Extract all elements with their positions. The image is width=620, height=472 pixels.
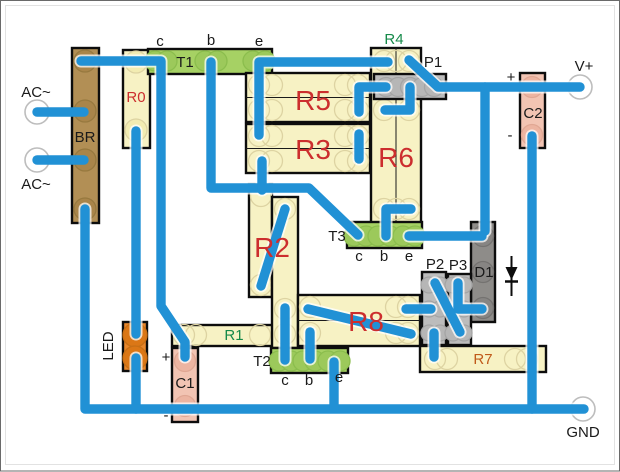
wire AC1 to BR bbox=[37, 107, 84, 116]
potentiometer P2 bbox=[421, 272, 448, 345]
svg-text:P2: P2 bbox=[426, 256, 444, 273]
bridge rectifier BR bbox=[72, 48, 99, 223]
svg-text:+: + bbox=[507, 69, 516, 86]
wire R4 top right to V+ bbox=[409, 60, 580, 87]
wire R0 bottom to LED top bbox=[131, 131, 140, 334]
resistor R8 bbox=[298, 295, 420, 346]
svg-text:T1: T1 bbox=[176, 54, 194, 71]
svg-text:c: c bbox=[281, 372, 289, 389]
wire P2 diagonal bbox=[435, 283, 460, 332]
potentiometer P1 bbox=[374, 74, 446, 99]
svg-text:c: c bbox=[355, 248, 363, 265]
wire R2 diagonal jumper bbox=[261, 209, 285, 286]
capacitor C2 bbox=[520, 73, 545, 148]
svg-text:e: e bbox=[405, 248, 413, 265]
svg-text:R1: R1 bbox=[224, 327, 243, 344]
svg-text:R3: R3 bbox=[295, 134, 331, 165]
svg-text:AC~: AC~ bbox=[21, 84, 51, 101]
wire T2 emitter to ground bus bbox=[329, 362, 338, 408]
svg-text:R0: R0 bbox=[126, 89, 145, 106]
svg-text:C1: C1 bbox=[175, 375, 194, 392]
potentiometer P3 bbox=[445, 274, 472, 345]
svg-text:b: b bbox=[380, 248, 388, 265]
wire R5 right to P1 left bbox=[359, 87, 386, 112]
svg-text:R6: R6 bbox=[378, 142, 414, 173]
wire AC2 to BR bbox=[37, 155, 84, 164]
resistor R1 bbox=[172, 325, 298, 347]
diode D1 bbox=[471, 222, 495, 322]
wire T1 emitter to R3 top and R4 top bbox=[259, 62, 388, 135]
svg-text:e: e bbox=[335, 369, 343, 386]
terminal AC2 bbox=[25, 148, 49, 172]
svg-text:V+: V+ bbox=[575, 58, 594, 75]
wire V+ rail to D1 top bbox=[480, 87, 489, 231]
svg-text:b: b bbox=[207, 32, 215, 49]
transistor T2 bbox=[269, 348, 350, 373]
diode symbol for D1 bbox=[505, 256, 518, 296]
svg-text:R7: R7 bbox=[473, 351, 492, 368]
wire R8 lower left to T2 base bbox=[305, 332, 314, 359]
wire LED bottom to ground bus bbox=[131, 358, 140, 409]
svg-text:P3: P3 bbox=[449, 257, 467, 274]
wire R8 right to P2 bbox=[406, 304, 431, 313]
svg-text:AC~: AC~ bbox=[21, 176, 51, 193]
svg-text:T3: T3 bbox=[328, 228, 346, 245]
resistor R7 bbox=[420, 346, 546, 372]
svg-text:-: - bbox=[508, 127, 513, 144]
svg-text:-: - bbox=[164, 407, 169, 424]
svg-text:LED: LED bbox=[100, 331, 117, 360]
wire R3 left lower stub bbox=[257, 161, 266, 190]
wire R6 bottom to T3 base bbox=[386, 209, 411, 236]
capacitor C1 bbox=[172, 348, 198, 422]
resistor R5 bbox=[246, 73, 370, 122]
svg-text:GND: GND bbox=[566, 424, 600, 441]
wire C2 minus to ground bus bbox=[527, 136, 536, 409]
svg-text:BR: BR bbox=[75, 129, 96, 146]
resistor R0 bbox=[123, 50, 150, 148]
wire T3 emitter to D1 top bbox=[409, 231, 482, 240]
wire BR minus down and ground bus to GND bbox=[85, 209, 584, 409]
svg-text:c: c bbox=[156, 33, 164, 50]
resistor R2 right column bbox=[272, 197, 298, 348]
resistor R3 bbox=[246, 124, 370, 173]
resistors R4/R6 vertical strip bbox=[371, 48, 421, 223]
svg-text:+: + bbox=[162, 349, 171, 366]
wire P3 to D1 bottom bbox=[458, 283, 482, 309]
svg-text:e: e bbox=[255, 33, 263, 50]
wire BR+ to T1 collector to C1+ bbox=[81, 61, 185, 357]
resistor R2 left column bbox=[249, 184, 272, 297]
wire R2 bottom to T2 collector bbox=[280, 308, 289, 360]
wire R8 diagonal jumper bbox=[308, 309, 411, 334]
transistor T1 bbox=[145, 49, 275, 74]
terminal AC1 bbox=[25, 100, 49, 124]
wire T1 base to T3 collector bbox=[211, 62, 358, 235]
LED bbox=[123, 322, 147, 371]
svg-text:P1: P1 bbox=[424, 54, 442, 71]
wire P2 bottom to R7 left bbox=[429, 333, 438, 357]
svg-text:b: b bbox=[305, 372, 313, 389]
svg-text:R2: R2 bbox=[254, 232, 290, 263]
wire R3 right column stub bbox=[354, 134, 363, 159]
wire P1 wiper to R6 top bbox=[385, 87, 410, 110]
wire underlay halos bbox=[81, 60, 584, 409]
svg-text:C2: C2 bbox=[523, 105, 542, 122]
svg-text:R4: R4 bbox=[384, 31, 403, 48]
svg-text:D1: D1 bbox=[474, 264, 493, 281]
transistor T3 bbox=[344, 222, 425, 248]
svg-text:T2: T2 bbox=[253, 353, 271, 370]
terminal GND bbox=[571, 397, 595, 421]
svg-text:R8: R8 bbox=[348, 306, 384, 337]
svg-text:R5: R5 bbox=[295, 85, 331, 116]
terminal V+ bbox=[568, 75, 592, 99]
